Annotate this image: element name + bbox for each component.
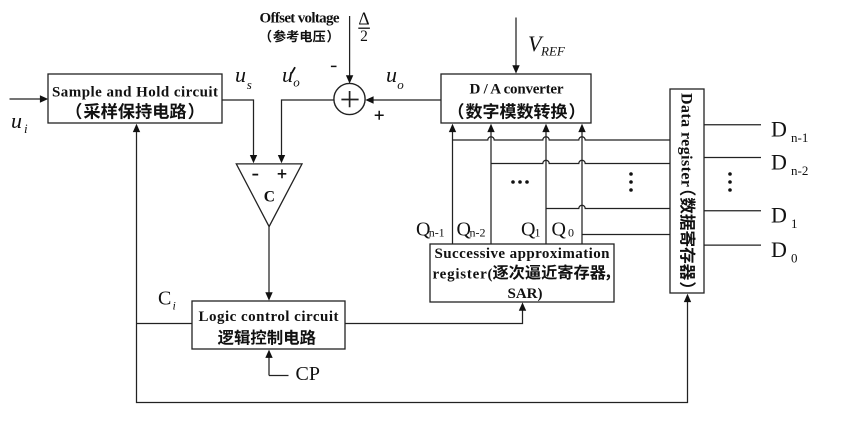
svg-text:u: u — [386, 62, 397, 87]
wire: logic control right to SAR bottom — [345, 302, 526, 323]
svg-text:D / A converter: D / A converter — [470, 82, 564, 98]
svg-text:register(: register( — [433, 266, 493, 282]
block: Logic control circuit (逻辑控制电路) — [192, 301, 345, 349]
wire: D_1 output line — [704, 210, 761, 212]
wire: input line with arrow into Sample and Hold — [10, 95, 49, 102]
svg-text:o: o — [293, 75, 300, 90]
block: Data register (数据寄存器) vertical — [670, 89, 704, 293]
node label u_o — [386, 62, 404, 92]
node label D_1 — [771, 203, 798, 232]
node label Q_n-2 — [457, 218, 486, 240]
svg-text:u: u — [11, 108, 22, 133]
block: Sample and Hold circuit (采样保持电路) — [48, 74, 222, 123]
svg-text:C: C — [158, 288, 171, 310]
block: Successive approximation register (SAR) — [430, 244, 614, 302]
svg-text:s: s — [247, 77, 252, 92]
node label Q_n-1 — [416, 218, 445, 240]
svg-text:C: C — [264, 188, 275, 205]
svg-text:REF: REF — [540, 44, 566, 59]
svg-text:D: D — [771, 117, 787, 142]
svg-text:D: D — [771, 237, 787, 262]
wire: D_n-1 output line — [704, 124, 761, 126]
wire: D_0 output line — [704, 244, 761, 246]
wire: branch from Q_0 to data register — [582, 234, 670, 236]
wire: comparator output down to logic control circuit — [265, 227, 272, 301]
summing junction circle with plus — [334, 83, 365, 114]
svg-text:u: u — [282, 62, 293, 87]
svg-text:1: 1 — [791, 216, 798, 231]
comparator C triangle — [236, 164, 302, 227]
wire: branch from Q_n-1 to data register (hops over other lines) — [453, 137, 671, 140]
svg-text:Sample and Hold circuit: Sample and Hold circuit — [52, 85, 218, 101]
wire: u_o from D/A converter to summing junction (arrow left) — [365, 96, 441, 103]
node label D_n-1 — [771, 117, 808, 146]
wire: V_REF line down into D/A converter — [512, 18, 519, 74]
wire: offset voltage line down into summing junction — [346, 16, 353, 84]
wire: C_i line from logic control left to feedback line — [137, 323, 193, 325]
svg-text:D: D — [771, 149, 787, 174]
wire: Q_0 vertical line from SAR up into D/A — [578, 124, 585, 244]
svg-text:Q: Q — [552, 218, 567, 240]
node label V_REF — [528, 31, 566, 59]
block: D/A converter (数字模数转换) — [441, 74, 591, 123]
label: vertical ellipsis left of data register — [629, 172, 633, 192]
wire: feedback line up into Sample and Hold, down and along bottom to data register — [133, 124, 691, 403]
wire: Q_n-1 vertical line from SAR up into D/A — [449, 124, 456, 244]
svg-text:n-2: n-2 — [791, 163, 808, 178]
label: minus sign at summing junction — [331, 65, 337, 67]
svg-text:Successive approximation: Successive approximation — [435, 246, 611, 262]
node label u_i — [11, 108, 28, 136]
label: horizontal ellipsis between Q lines — [511, 180, 529, 184]
svg-text:2: 2 — [360, 28, 368, 45]
svg-text:o: o — [397, 77, 404, 92]
label: vertical ellipsis right of data register — [728, 172, 732, 192]
svg-text:Offset voltage: Offset voltage — [260, 11, 340, 27]
svg-text:i: i — [173, 299, 176, 313]
svg-text:i: i — [24, 121, 28, 136]
node label D_n-2 — [771, 149, 808, 178]
svg-text:0: 0 — [791, 250, 798, 265]
wire: branch from Q_n-2 to data register — [491, 160, 670, 163]
node label u_o' — [282, 62, 300, 90]
svg-text:n-1: n-1 — [791, 130, 808, 145]
svg-text:CP: CP — [296, 363, 320, 385]
wire: CP clock input into logic control — [265, 350, 288, 376]
node label Q_1 — [521, 218, 541, 240]
wire: u_o' from summing circle left down to comparator plus input — [278, 100, 336, 163]
node label u_s — [235, 62, 252, 92]
svg-text:0: 0 — [568, 225, 574, 239]
svg-text:SAR): SAR) — [507, 286, 542, 302]
node label C_i — [158, 288, 176, 313]
wire: branch from Q_1 to data register — [546, 205, 670, 208]
label: delta over 2 — [358, 9, 370, 45]
svg-text:Δ: Δ — [358, 9, 369, 29]
wire: Q_n-2 vertical line from SAR up into D/A — [487, 124, 494, 244]
svg-text:D: D — [771, 203, 787, 228]
svg-text:n-2: n-2 — [470, 225, 486, 239]
svg-text:1: 1 — [535, 225, 541, 239]
node label Q_0 — [552, 218, 575, 240]
node label D_0 — [771, 237, 798, 266]
svg-text:Logic control circuit: Logic control circuit — [199, 309, 339, 325]
wire: u_s from S/H output down to comparator minus input — [222, 100, 257, 163]
svg-text:n-1: n-1 — [429, 225, 445, 239]
wire: Q_1 vertical line from SAR up into D/A — [542, 124, 549, 244]
svg-text:u: u — [235, 62, 246, 87]
label: plus sign below summing junction — [375, 111, 384, 120]
wire: D_n-2 output line — [704, 157, 761, 159]
svg-text:Data register: Data register — [678, 93, 695, 187]
label: Offset voltage (参考电压) — [260, 11, 340, 43]
